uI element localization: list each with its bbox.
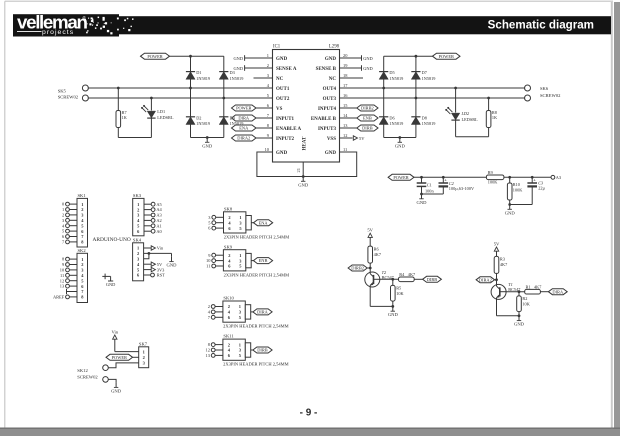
svg-text:10K: 10K	[522, 302, 530, 307]
svg-text:SK11: SK11	[223, 334, 234, 339]
svg-text:projects: projects	[42, 29, 74, 36]
svg-text:OUT1: OUT1	[276, 87, 290, 92]
svg-text:1N5819: 1N5819	[196, 121, 210, 126]
svg-text:SCREW02: SCREW02	[58, 95, 79, 100]
svg-text:D6: D6	[389, 115, 395, 120]
wire POWER to R9	[414, 176, 486, 179]
svg-text:2: 2	[228, 342, 230, 347]
svg-text:SK4: SK4	[133, 237, 142, 242]
wire POWER rail A	[170, 55, 224, 58]
svg-text:1: 1	[137, 202, 139, 207]
capacitor C3 22u	[510, 177, 546, 204]
svg-text:SK8: SK8	[224, 206, 233, 211]
resistor R6 4K7	[368, 246, 382, 272]
svg-text:LD1: LD1	[157, 109, 165, 114]
svg-text:A0: A0	[156, 229, 162, 234]
svg-text:POWER: POWER	[147, 54, 162, 59]
net label ENA at IC1 pin 8	[232, 125, 257, 131]
diode D1 1N5819	[186, 70, 210, 81]
net label DIRB2 at IC1 pin 15	[357, 105, 378, 111]
svg-text:OUT3: OUT3	[323, 97, 337, 102]
svg-text:2: 2	[228, 304, 230, 309]
svg-text:2: 2	[137, 207, 139, 212]
connector SK3 header	[133, 193, 163, 236]
svg-text:5V: 5V	[367, 228, 373, 233]
ground tag GND at IC1 pin 20	[362, 55, 373, 61]
svg-text:POWER: POWER	[112, 355, 127, 360]
svg-text:2: 2	[208, 304, 210, 309]
svg-text:DIRA: DIRA	[552, 289, 564, 294]
svg-text:IC1: IC1	[273, 44, 281, 49]
net label POWER channel A	[141, 53, 170, 59]
svg-text:NC: NC	[329, 77, 337, 82]
svg-text:1N5819: 1N5819	[422, 76, 436, 81]
svg-text:ENA: ENA	[259, 220, 269, 225]
resistor R1 4K7	[525, 284, 549, 294]
svg-text:DIRB: DIRB	[257, 348, 268, 353]
svg-text:DIRB: DIRB	[362, 126, 373, 131]
ground stub near SK2	[102, 274, 115, 287]
svg-text:4K7: 4K7	[408, 272, 416, 277]
svg-text:22µ: 22µ	[538, 186, 545, 191]
svg-text:OUT2: OUT2	[276, 97, 290, 102]
svg-text:DIRB2: DIRB2	[351, 266, 364, 271]
net label DIRB at R4	[423, 276, 442, 282]
svg-text:2: 2	[228, 253, 230, 258]
svg-text:2: 2	[228, 215, 230, 220]
svg-text:D5: D5	[389, 70, 394, 75]
svg-text:GND: GND	[363, 56, 373, 61]
svg-text:1N5819: 1N5819	[389, 76, 403, 81]
wire T2 base node	[380, 278, 399, 281]
velleman projects logo	[17, 12, 134, 37]
net label ENA at SK8	[254, 220, 273, 226]
svg-text:1: 1	[267, 53, 269, 58]
svg-text:ENABLE A: ENABLE A	[276, 127, 302, 132]
svg-text:DIRA2: DIRA2	[479, 277, 492, 282]
svg-text:100K: 100K	[488, 180, 498, 185]
capacitor C2 100u 63-100V	[422, 177, 475, 194]
resistor R2 10K	[517, 292, 531, 316]
svg-text:2: 2	[143, 355, 145, 360]
resistor R3 4K7	[494, 256, 508, 284]
ground below C1 C2	[421, 194, 423, 199]
svg-text:POWER: POWER	[439, 54, 454, 59]
connector SK1 header	[62, 193, 88, 247]
svg-text:12: 12	[343, 133, 347, 138]
svg-text:1N5819: 1N5819	[230, 121, 244, 126]
net label ENB at SK9	[253, 258, 272, 264]
svg-text:SK9: SK9	[224, 244, 233, 249]
net label DIRA at R1	[548, 289, 567, 295]
svg-text:GND: GND	[395, 143, 406, 148]
svg-text:1: 1	[239, 304, 241, 309]
connector SK5 SCREW02	[58, 85, 89, 101]
wire SK4 pins 2 3 to ground	[144, 252, 172, 259]
svg-text:1: 1	[62, 207, 64, 212]
svg-text:4K7: 4K7	[534, 284, 542, 289]
svg-text:POWER: POWER	[393, 175, 408, 180]
svg-text:1K: 1K	[122, 115, 128, 120]
svg-text:GND: GND	[276, 57, 288, 62]
svg-text:R3: R3	[500, 257, 505, 262]
power arrow 5V for T1	[494, 241, 500, 256]
wire SK12 pin 2 to ground	[108, 379, 116, 382]
diode D2 1N5819	[186, 115, 210, 126]
svg-text:SENSE B: SENSE B	[316, 67, 337, 72]
svg-text:OUT4: OUT4	[323, 87, 337, 92]
ground tag GND at IC1 pin 2	[233, 65, 244, 71]
net label POWER at SK7 pin 2	[106, 354, 139, 360]
svg-text:D3: D3	[230, 70, 235, 75]
wire OUT3	[340, 97, 526, 100]
svg-text:ENB: ENB	[363, 116, 372, 121]
ground at T2 emitter	[392, 306, 394, 311]
resistor R5 10K	[391, 279, 405, 306]
power tag 5V at SK4 pin 4	[144, 262, 163, 267]
resistor R8 1K	[486, 98, 498, 137]
svg-text:1: 1	[81, 257, 83, 262]
svg-text:SCREW02: SCREW02	[77, 374, 98, 379]
connector SK11 2x3 header	[206, 334, 253, 361]
svg-text:GND: GND	[202, 143, 213, 148]
svg-text:GND: GND	[514, 322, 525, 327]
ground channel B	[399, 138, 401, 143]
svg-text:2: 2	[81, 262, 83, 267]
power tag +5V at IC1 pin 12	[353, 136, 365, 141]
wire diode rail A2	[223, 56, 225, 137]
LED LD1 LEDSRL	[141, 98, 174, 138]
svg-text:R5: R5	[396, 286, 401, 291]
svg-text:GND: GND	[363, 66, 373, 71]
svg-text:100n: 100n	[425, 189, 434, 194]
svg-text:2: 2	[267, 63, 269, 68]
wire LD2 R8 bottom	[456, 136, 489, 138]
resistor R9 100K	[486, 170, 504, 185]
net label POWER at IC1 pin 6	[232, 105, 257, 111]
svg-text:DIRA: DIRA	[238, 116, 250, 121]
wire OUT1	[88, 87, 273, 90]
svg-text:D8: D8	[422, 115, 427, 120]
svg-text:SK5: SK5	[58, 88, 67, 93]
ground channel A	[206, 138, 208, 143]
svg-text:3V3: 3V3	[157, 267, 165, 272]
wire diode rail B2	[415, 56, 417, 137]
svg-text:GND: GND	[167, 263, 178, 268]
svg-text:1K: 1K	[492, 115, 498, 120]
LED LD2 LEDSRL	[445, 88, 478, 137]
svg-text:HEAT: HEAT	[303, 136, 308, 150]
svg-text:GND: GND	[417, 200, 428, 205]
resistor R4 4K7	[399, 272, 423, 282]
svg-text:5V: 5V	[494, 241, 500, 246]
power tag Vin at SK7 pin 1	[111, 329, 138, 351]
wire diode rail A1	[190, 56, 192, 137]
svg-text:A3: A3	[156, 213, 162, 218]
resistor R10 100K	[507, 177, 523, 206]
svg-text:ENA: ENA	[239, 126, 249, 131]
svg-text:R2: R2	[522, 296, 527, 301]
svg-text:+: +	[444, 177, 447, 182]
svg-text:SCREW02: SCREW02	[540, 93, 561, 98]
svg-text:LEDSRL: LEDSRL	[462, 117, 479, 122]
svg-text:11: 11	[206, 264, 210, 269]
svg-text:GND: GND	[233, 66, 243, 71]
svg-text:L298: L298	[329, 44, 340, 49]
svg-text:Vin: Vin	[157, 246, 164, 251]
svg-text:SK7: SK7	[139, 341, 148, 346]
net label ENB at IC1 pin 14	[357, 115, 378, 121]
resistor R7 1K	[116, 88, 128, 138]
svg-text:2: 2	[62, 213, 64, 218]
wire OUT4	[340, 87, 526, 90]
svg-text:GND: GND	[106, 282, 116, 287]
net label DIRA2 at IC1 pin 9	[232, 135, 257, 141]
power arrow 5V for T2	[367, 228, 373, 247]
net label POWER channel B	[433, 53, 461, 59]
svg-text:DIRA2: DIRA2	[237, 136, 250, 141]
net label DIRB at IC1 pin 13	[357, 125, 378, 131]
connector SK8 2x3 header	[208, 206, 253, 233]
wire R7 LD1 bottom	[118, 137, 151, 139]
wire SK7 pin 3 to SK12	[108, 363, 138, 368]
svg-text:INPUT4: INPUT4	[318, 107, 337, 112]
ground below R10	[509, 205, 511, 210]
svg-text:R10: R10	[513, 182, 520, 187]
svg-text:A4: A4	[156, 207, 162, 212]
svg-text:1: 1	[137, 246, 139, 251]
wire T2 emitter to ground	[370, 287, 394, 308]
svg-text:RST: RST	[157, 273, 165, 278]
svg-text:SK2: SK2	[78, 248, 87, 253]
svg-text:1N5819: 1N5819	[196, 76, 210, 81]
connector SK9 2x3 header	[206, 244, 253, 271]
wire IC1 pins 10 and 11 to heat pin 21	[257, 152, 357, 178]
svg-text:GND: GND	[276, 151, 288, 156]
svg-text:11: 11	[60, 273, 64, 278]
ground tag GND at IC1 pin 19	[362, 65, 373, 71]
connector SK12 SCREW02	[77, 365, 108, 382]
svg-text:DIRA: DIRA	[257, 310, 269, 315]
svg-text:Vin: Vin	[111, 329, 118, 334]
connector SK4 header	[133, 237, 144, 280]
svg-text:A2: A2	[156, 218, 161, 223]
svg-text:ENABLE B: ENABLE B	[311, 117, 337, 122]
svg-text:R4: R4	[399, 272, 405, 277]
svg-text:4K7: 4K7	[500, 262, 508, 267]
svg-text:1N5819: 1N5819	[389, 121, 403, 126]
ground at SK4 pins 2 3	[171, 257, 173, 262]
transistor T1 BC547	[491, 282, 521, 299]
svg-text:NC: NC	[276, 77, 284, 82]
diode D8 1N5819	[411, 115, 435, 126]
net label DIRA2 at T1 collector	[476, 277, 496, 283]
svg-text:SK12: SK12	[77, 368, 88, 373]
svg-text:- 9 -: - 9 -	[300, 408, 318, 419]
wire diode rail B1	[383, 56, 385, 137]
svg-text:C1: C1	[427, 183, 432, 188]
svg-text:DIRB: DIRB	[427, 277, 438, 282]
connector SK7 header	[139, 341, 149, 367]
wire T1 base node	[506, 290, 525, 293]
svg-text:ARDUINO-UNO: ARDUINO-UNO	[93, 237, 131, 243]
svg-text:2: 2	[81, 207, 83, 212]
svg-text:INPUT1: INPUT1	[276, 117, 295, 122]
svg-text:GND: GND	[325, 57, 337, 62]
svg-text:VSS: VSS	[327, 137, 336, 142]
svg-text:INPUT3: INPUT3	[318, 127, 337, 132]
diode D7 1N5819	[411, 70, 435, 81]
svg-text:D1: D1	[196, 70, 201, 75]
svg-text:GND: GND	[111, 388, 122, 393]
pin RST at SK4 pin 6	[144, 273, 166, 278]
connector SK2 header	[53, 248, 88, 303]
IC IC1 L298 body	[273, 44, 340, 162]
svg-text:POWER: POWER	[236, 106, 251, 111]
svg-text:1N5819: 1N5819	[422, 121, 436, 126]
diode D4 1N5819	[219, 115, 243, 126]
svg-text:12: 12	[60, 278, 64, 283]
IC1 left pin stubs and pin numbers	[245, 53, 273, 152]
svg-text:GND: GND	[298, 182, 309, 187]
net label POWER sense network	[388, 174, 414, 180]
svg-text:10K: 10K	[396, 291, 404, 296]
svg-text:LD2: LD2	[461, 111, 470, 116]
svg-text:LEDSRL: LEDSRL	[157, 115, 174, 120]
svg-text:VS: VS	[276, 107, 283, 112]
svg-text:GND: GND	[233, 56, 243, 61]
svg-text:SK6: SK6	[540, 86, 549, 91]
svg-text:1: 1	[81, 202, 83, 207]
node A3 terminal	[551, 175, 561, 180]
ground at SK12	[115, 383, 117, 388]
svg-text:R6: R6	[374, 246, 380, 251]
svg-text:1: 1	[143, 349, 145, 354]
ground below IC1 pin 21	[298, 177, 309, 188]
IC1 right pin stubs and pin numbers	[340, 53, 364, 152]
svg-text:INPUT2: INPUT2	[276, 137, 295, 142]
connector SK6 SCREW02	[525, 85, 562, 101]
svg-text:12: 12	[206, 348, 210, 353]
svg-text:100K: 100K	[513, 188, 523, 193]
net label DIRB at SK11	[253, 347, 272, 353]
svg-text:SK3: SK3	[133, 193, 142, 198]
svg-text:A5: A5	[156, 202, 162, 207]
svg-text:R9: R9	[488, 170, 493, 175]
net label DIRB2 at T2 collector	[348, 265, 370, 271]
svg-text:GND: GND	[505, 210, 516, 215]
svg-text:DIRB2: DIRB2	[361, 106, 374, 111]
svg-text:4K7: 4K7	[374, 252, 382, 257]
connector SK10 2x3 header	[208, 296, 253, 323]
wire ground rail B	[384, 136, 416, 139]
diode D5 1N5819	[379, 70, 403, 81]
svg-text:SK10: SK10	[223, 296, 234, 301]
svg-text:SK1: SK1	[78, 193, 87, 198]
wire ground rail A	[191, 136, 224, 139]
wire T1 emitter to ground	[497, 299, 521, 317]
svg-text:1: 1	[239, 215, 241, 220]
power tag 3V3 at SK4 pin 5	[144, 267, 166, 272]
svg-text:1: 1	[239, 342, 241, 347]
svg-text:+: +	[533, 177, 536, 182]
capacitor C1 100n	[417, 177, 435, 195]
svg-text:D4: D4	[230, 115, 236, 120]
wire OUT2	[88, 97, 273, 100]
svg-text:D2: D2	[196, 115, 201, 120]
wire R9 to A3	[504, 176, 551, 179]
svg-text:5V: 5V	[359, 136, 365, 141]
diode D3 1N5819	[219, 70, 243, 81]
svg-text:1: 1	[239, 253, 241, 258]
svg-text:R1: R1	[526, 284, 531, 289]
net label DIRA at SK10	[253, 309, 272, 315]
svg-text:A3: A3	[556, 175, 561, 180]
transistor T2 BC547	[365, 270, 395, 287]
net label DIRA at IC1 pin 7	[232, 115, 257, 121]
ground tag GND at IC1 pin 1	[233, 55, 244, 61]
svg-text:Schematic diagram: Schematic diagram	[488, 18, 594, 31]
power tag Vin at SK4 pin 1	[144, 246, 164, 251]
svg-text:11: 11	[343, 147, 347, 152]
svg-text:1N5819: 1N5819	[230, 76, 244, 81]
wire POWER rail B	[384, 55, 433, 58]
svg-text:ENB: ENB	[259, 258, 268, 263]
svg-text:21: 21	[296, 168, 301, 172]
svg-text:GND: GND	[325, 151, 337, 156]
svg-text:GND: GND	[388, 312, 399, 317]
svg-text:5V: 5V	[157, 262, 163, 267]
ground at T1 emitter	[518, 316, 520, 321]
svg-text:A1: A1	[156, 223, 161, 228]
svg-text:AREF: AREF	[53, 295, 65, 300]
diode D6 1N5819	[379, 115, 403, 126]
svg-text:2: 2	[137, 251, 139, 256]
svg-text:D7: D7	[422, 70, 428, 75]
svg-text:SENSE A: SENSE A	[276, 67, 297, 72]
header black bar	[13, 14, 611, 36]
